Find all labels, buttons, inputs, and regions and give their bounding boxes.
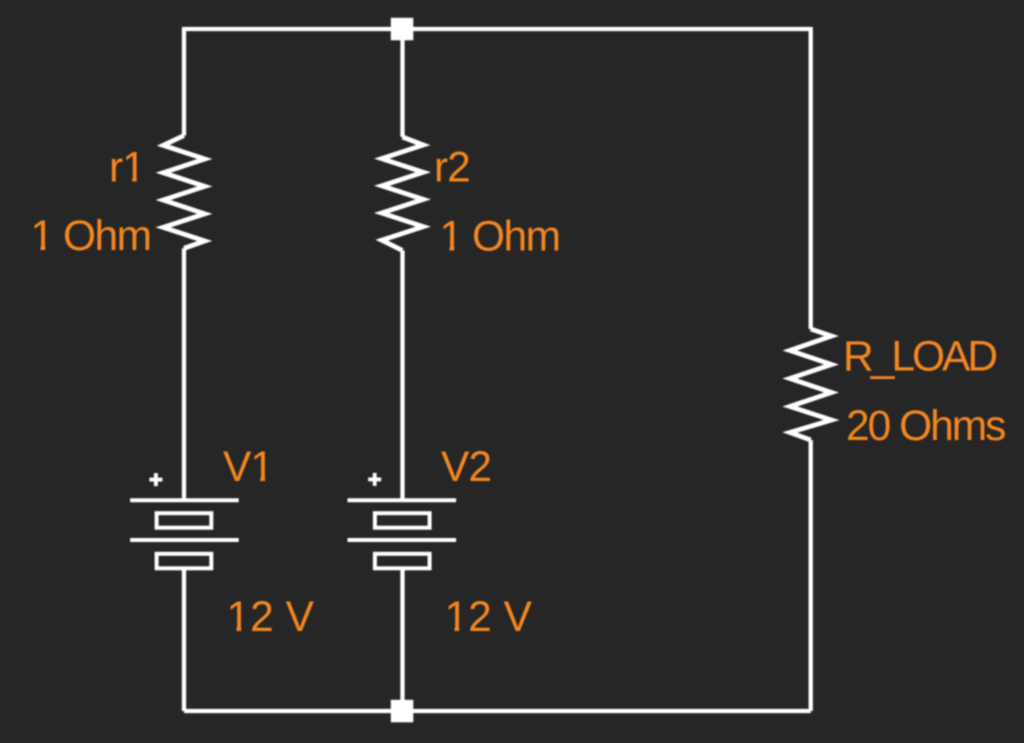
mask group: hide serif feet of "1" glyphs to match target font [33,176,467,632]
node bottom junction [391,700,414,723]
node top junction [391,18,414,41]
svg-text:r1: r1 [109,145,145,192]
battery V2 [348,473,457,568]
wire bottom rail [184,709,811,713]
svg-text:V1: V1 [223,444,273,491]
svg-text:1 Ohm: 1 Ohm [440,214,560,261]
wire V1 to bottom rail [182,570,186,711]
wire left branch top [182,27,186,136]
V1 top plate [130,498,239,502]
wire middle branch top [400,29,404,137]
wire r2 to V2 [400,251,404,501]
V1 plus sign [149,473,162,486]
V1 mid plate [130,538,239,542]
V1 cell rect 1 [157,513,212,528]
V1 cell rect 2 [157,554,212,569]
resistor R_LOAD [790,329,832,440]
wire V2 to bottom rail [400,570,404,711]
resistor r1 [163,136,205,249]
V2 top plate [348,498,457,502]
battery V1 [130,473,239,568]
V2 cell rect 2 [375,554,430,569]
wire top rail [184,27,811,31]
V2 cell rect 1 [375,513,430,528]
wire r1 to V1 [182,248,186,500]
svg-text:r2: r2 [434,145,470,192]
V2 plus sign [368,473,381,486]
svg-text:V2: V2 [441,444,491,491]
svg-text:R_LOAD: R_LOAD [843,334,996,381]
svg-text:20 Ohms: 20 Ohms [846,403,1005,450]
wire right rail lower [809,440,813,711]
V2 mid plate [348,538,457,542]
wire right rail upper [809,27,813,329]
svg-text:1 Ohm: 1 Ohm [31,213,151,260]
resistor r2 [382,137,424,251]
svg-text:12 V: 12 V [445,594,533,641]
svg-text:12 V: 12 V [227,594,315,641]
